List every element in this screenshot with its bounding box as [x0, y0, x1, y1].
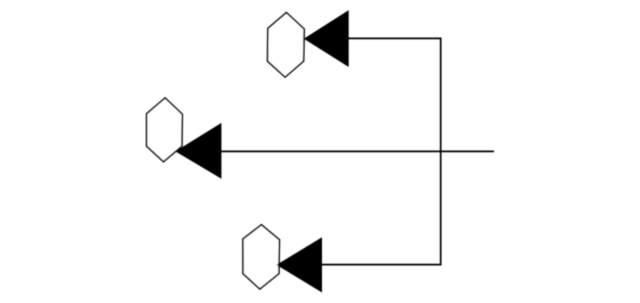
hexagon H2 (middle symbol body) [147, 98, 183, 162]
triangle A2 (middle solid arrowhead pointing left) [175, 123, 221, 179]
wire from triangle A2 across bus (middle horizontal) [220, 150, 494, 152]
wire from triangle A1 to bus (top horizontal) [348, 37, 442, 39]
triangle A3 (bottom solid arrowhead pointing left) [277, 237, 323, 292]
hexagon H3 (bottom symbol body) [243, 225, 280, 289]
triangle A1 (top solid arrowhead pointing left) [304, 10, 349, 67]
wire from triangle A3 to bus (bottom horizontal) [321, 264, 442, 266]
hexagon H1 (top symbol body) [268, 13, 305, 78]
vertical bus wire joining the three branches [440, 38, 442, 266]
